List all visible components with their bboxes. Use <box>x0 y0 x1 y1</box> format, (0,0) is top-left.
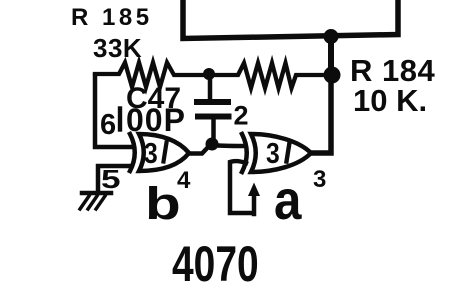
svg-text:b: b <box>145 179 181 229</box>
svg-text:R 185: R 185 <box>71 4 153 31</box>
svg-text:2: 2 <box>234 101 249 131</box>
svg-text:6: 6 <box>100 109 116 141</box>
svg-text:33K: 33K <box>93 33 142 63</box>
svg-text:a: a <box>274 169 302 232</box>
svg-text:3: 3 <box>144 137 158 169</box>
svg-text:10 K.: 10 K. <box>353 83 427 118</box>
svg-text:4070: 4070 <box>172 235 259 292</box>
svg-text:3: 3 <box>266 137 280 169</box>
svg-text:00P: 00P <box>126 102 186 138</box>
svg-text:3: 3 <box>313 166 326 193</box>
svg-text:5: 5 <box>101 164 121 193</box>
